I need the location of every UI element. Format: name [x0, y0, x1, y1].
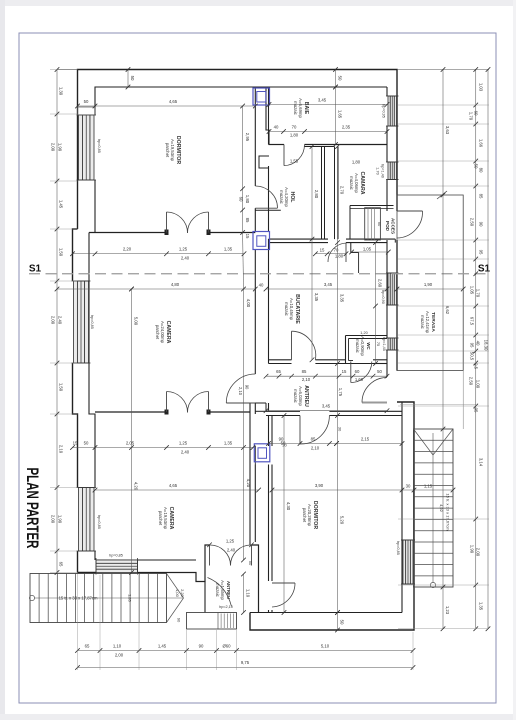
svg-text:3,35: 3,35	[340, 294, 345, 303]
bottom extension lines	[77, 574, 79, 670]
acces pod zone top wall	[350, 205, 394, 207]
window left dormitor1	[79, 115, 95, 180]
svg-text:2,00: 2,00	[51, 515, 56, 524]
svg-text:1,70: 1,70	[376, 167, 380, 174]
window right camara	[388, 162, 397, 180]
top extension line y=69.5 to right dims	[397, 69, 489, 71]
svg-text:2,10: 2,10	[238, 387, 243, 396]
svg-text:65: 65	[276, 369, 281, 374]
wall dormitor1 bottom (y=232.5)	[89, 232, 167, 234]
svg-text:1,80: 1,80	[335, 254, 344, 259]
svg-text:hp=0,85: hp=0,85	[97, 515, 101, 529]
bucatarie/antreu divider (y=361)	[269, 359, 292, 361]
svg-text:15 tr. x 33 x 17,87cm: 15 tr. x 33 x 17,87cm	[59, 596, 98, 601]
svg-text:80: 80	[479, 168, 484, 173]
svg-text:18,30: 18,30	[484, 340, 489, 351]
svg-text:85: 85	[245, 218, 250, 223]
svg-text:2,50: 2,50	[468, 377, 473, 386]
svg-text:3,35: 3,35	[314, 293, 319, 302]
svg-text:4,20: 4,20	[246, 479, 251, 488]
svg-text:1,80: 1,80	[290, 133, 299, 138]
svg-text:30: 30	[338, 427, 343, 432]
svg-text:2,95: 2,95	[245, 133, 250, 142]
camera19/dormitor2 mid dim	[95, 489, 259, 491]
door camera24-antreu6	[226, 402, 255, 404]
dormitor2 door dim line	[269, 443, 337, 445]
svg-text:3,45: 3,45	[318, 98, 327, 103]
svg-text:1,20: 1,20	[360, 331, 367, 335]
svg-text:3,14: 3,14	[479, 458, 484, 467]
svg-text:1,00: 1,00	[475, 380, 480, 389]
svg-text:2,00: 2,00	[115, 653, 124, 658]
svg-text:3,63: 3,63	[445, 126, 450, 135]
svg-text:90: 90	[377, 222, 382, 227]
wall below hol door	[255, 209, 280, 211]
double door dormitor1 south	[166, 212, 168, 233]
svg-text:2,20: 2,20	[123, 247, 132, 252]
hol small dim	[352, 251, 389, 253]
antreu/dormitor2 divider (y=413)	[266, 410, 300, 412]
svg-text:65: 65	[59, 562, 64, 567]
spine wall between left rooms and hall	[254, 87, 256, 186]
window left camera19	[79, 488, 95, 552]
terrace edge extension to stair	[462, 371, 464, 430]
svg-text:1,00: 1,00	[175, 589, 180, 598]
svg-text:1,45: 1,45	[59, 200, 64, 209]
baie dimension line	[269, 131, 387, 133]
svg-text:hp=0,85: hp=0,85	[97, 139, 101, 153]
svg-text:2,35: 2,35	[342, 125, 351, 130]
svg-text:50: 50	[340, 620, 345, 625]
wall baie bottom / hol top	[269, 144, 285, 146]
svg-text:1,35: 1,35	[224, 247, 233, 252]
svg-text:2,20: 2,20	[180, 589, 185, 598]
svg-text:A=4,20mp: A=4,20mp	[284, 187, 289, 207]
svg-text:2,00: 2,00	[475, 548, 480, 557]
svg-text:60: 60	[355, 369, 360, 374]
svg-text:S1: S1	[478, 264, 491, 275]
svg-text:0,5: 0,5	[473, 363, 478, 370]
svg-text:1,80: 1,80	[352, 160, 361, 165]
svg-text:30: 30	[406, 484, 411, 489]
hol/bucatarie vertical dims	[311, 147, 313, 360]
svg-text:hp=1,40: hp=1,40	[381, 164, 385, 178]
svg-text:2,40: 2,40	[181, 256, 190, 261]
svg-text:3,45: 3,45	[322, 404, 331, 409]
svg-text:2,10: 2,10	[59, 445, 64, 454]
window right dormitor2	[403, 540, 413, 584]
svg-text:Ø60: Ø60	[222, 644, 231, 649]
exterior stair east (treads)	[414, 429, 454, 587]
camara shaft walls	[321, 147, 323, 240]
dormitor1 interior vertical dims	[242, 233, 245, 290]
svg-text:2,05: 2,05	[126, 441, 135, 446]
svg-text:15: 15	[73, 441, 78, 446]
exterior wall - inner faces top/left	[95, 87, 387, 115]
interior vertical dim x=131	[131, 289, 133, 573]
svg-text:2,60: 2,60	[378, 279, 383, 288]
svg-text:1,23: 1,23	[445, 606, 450, 615]
wall baie left	[266, 87, 269, 145]
door bucatarie-antreu	[291, 331, 293, 360]
top dimension line inner	[78, 105, 256, 107]
svg-text:A=6,03mp: A=6,03mp	[298, 386, 303, 406]
left dimension chain	[56, 70, 58, 573]
svg-text:85: 85	[302, 369, 307, 374]
svg-text:15 tr. x 33 x 17,67cm: 15 tr. x 33 x 17,67cm	[446, 493, 451, 531]
svg-text:A=0,90mp: A=0,90mp	[360, 336, 365, 356]
svg-text:15: 15	[342, 369, 347, 374]
wc walls	[346, 335, 388, 337]
mid horizontal dim at s1	[57, 288, 255, 290]
svg-text:40: 40	[259, 283, 264, 288]
svg-text:1,75: 1,75	[338, 388, 343, 397]
svg-text:2,00: 2,00	[51, 316, 56, 325]
top wall thickness dim	[335, 70, 337, 88]
baie niche walls	[259, 156, 269, 168]
camera 19 bottom wall with jog	[78, 572, 97, 574]
svg-text:2,10: 2,10	[302, 377, 311, 382]
svg-text:1,50: 1,50	[59, 248, 64, 257]
terrace width dim	[397, 288, 463, 290]
antreu6 area dim	[266, 410, 387, 412]
svg-text:hp=1,45: hp=1,45	[382, 337, 386, 351]
wall camera right face	[249, 414, 251, 542]
svg-text:05: 05	[473, 408, 478, 413]
svg-text:A=6,69mp: A=6,69mp	[298, 98, 303, 118]
svg-text:1,25: 1,25	[226, 539, 235, 544]
svg-text:hp=0,85: hp=0,85	[109, 554, 123, 558]
svg-text:50: 50	[248, 561, 253, 566]
double door camera24 south	[166, 392, 168, 413]
double door camera19 south	[209, 545, 211, 566]
svg-text:ANTREU: ANTREU	[226, 581, 231, 599]
svg-text:A=10,45mp: A=10,45mp	[289, 298, 294, 321]
svg-text:5,10: 5,10	[321, 644, 330, 649]
svg-text:2,70: 2,70	[340, 186, 345, 195]
svg-text:hp=0,85: hp=0,85	[90, 315, 94, 329]
door baie	[283, 145, 285, 166]
svg-text:hp=0,90: hp=0,90	[381, 290, 385, 304]
svg-text:5,00: 5,00	[134, 317, 139, 326]
wall antreu left connector	[255, 402, 266, 404]
door antreu165 entry	[208, 578, 232, 607]
svg-text:4,00: 4,00	[246, 299, 251, 308]
svg-text:90: 90	[479, 222, 484, 227]
svg-text:1,85: 1,85	[128, 594, 133, 603]
svg-text:90: 90	[177, 618, 182, 623]
svg-text:1,90: 1,90	[58, 143, 63, 152]
svg-text:1,35: 1,35	[479, 602, 484, 611]
exterior wall outline - outer face	[78, 70, 398, 230]
svg-text:1,65: 1,65	[338, 110, 343, 119]
window bottom camera19	[96, 560, 138, 573]
svg-text:1,50: 1,50	[59, 383, 64, 392]
svg-text:mozaic: mozaic	[293, 101, 298, 115]
svg-text:3,90: 3,90	[315, 483, 324, 488]
svg-text:1,35: 1,35	[224, 441, 233, 446]
bottom exterior wall	[250, 612, 402, 614]
svg-text:70: 70	[292, 125, 297, 130]
svg-text:6,62: 6,62	[445, 306, 450, 315]
door acces pod - terasa	[397, 210, 423, 212]
acces pod door small dims	[315, 253, 346, 255]
svg-text:1,70: 1,70	[475, 289, 480, 298]
svg-text:mozaic: mozaic	[293, 389, 298, 403]
svg-text:A=20,28mp: A=20,28mp	[307, 504, 312, 527]
antreu porch with steps	[187, 613, 237, 630]
window left camera24	[74, 281, 89, 363]
svg-text:1,10: 1,10	[246, 589, 251, 598]
bucatarie corner jog near hol door	[351, 243, 359, 253]
door hol-dormitor1	[255, 186, 277, 208]
top wall thickness dim left	[127, 70, 129, 88]
svg-text:hp=0,95: hp=0,95	[382, 104, 386, 118]
svg-text:POD: POD	[385, 221, 390, 232]
antreu6 top dim line	[266, 375, 387, 377]
bucatarie right vertical dim	[375, 243, 377, 364]
svg-text:hp=0,85: hp=0,85	[396, 541, 400, 555]
svg-text:95: 95	[469, 343, 474, 348]
svg-text:75: 75	[376, 342, 380, 346]
svg-text:mozaic: mozaic	[420, 315, 425, 329]
svg-text:1,60: 1,60	[355, 377, 364, 382]
door antreu-dormitor2	[299, 416, 301, 445]
svg-text:1,25: 1,25	[179, 441, 188, 446]
svg-text:4,20: 4,20	[134, 482, 139, 491]
dormitor1 door dim line	[73, 253, 245, 255]
svg-text:1,45: 1,45	[158, 644, 167, 649]
svg-text:WC: WC	[366, 342, 371, 350]
svg-text:1,05: 1,05	[363, 247, 372, 252]
window right wc	[388, 338, 397, 350]
svg-text:1,80: 1,80	[245, 195, 250, 204]
svg-text:mozaic: mozaic	[215, 583, 220, 597]
svg-text:parchet: parchet	[302, 508, 307, 523]
svg-text:85: 85	[479, 194, 484, 199]
svg-text:mozaic: mozaic	[355, 339, 360, 353]
svg-text:50: 50	[338, 76, 343, 81]
svg-text:90: 90	[245, 385, 250, 390]
svg-text:70: 70	[334, 248, 339, 253]
svg-text:S1: S1	[29, 264, 42, 275]
svg-text:mozaic: mozaic	[279, 190, 284, 204]
door dormitor2-antreu165	[272, 582, 295, 584]
svg-text:A=12,41mp: A=12,41mp	[425, 311, 430, 334]
svg-text:2,50: 2,50	[469, 218, 474, 227]
svg-text:50: 50	[377, 369, 382, 374]
svg-text:PLAN PARTER: PLAN PARTER	[23, 468, 41, 549]
svg-text:2,40: 2,40	[58, 316, 63, 325]
camera24 door dim line	[73, 447, 254, 449]
svg-text:A=4,06mp: A=4,06mp	[354, 173, 359, 193]
exterior stair west (15 treads)	[30, 574, 167, 623]
svg-text:5,20: 5,20	[340, 516, 345, 525]
svg-text:15: 15	[245, 234, 250, 239]
acces pod ladder	[365, 208, 381, 240]
svg-text:3,45: 3,45	[324, 282, 333, 287]
svg-text:1,66: 1,66	[479, 139, 484, 148]
svg-text:2,15: 2,15	[361, 437, 370, 442]
svg-text:85: 85	[311, 437, 316, 442]
right dimension chain inner	[475, 70, 477, 629]
svg-text:15: 15	[320, 248, 325, 253]
section line S1	[29, 273, 489, 275]
chimney flue 1	[253, 88, 270, 105]
svg-text:30: 30	[282, 443, 287, 448]
svg-text:67,5: 67,5	[469, 317, 474, 326]
svg-text:50: 50	[130, 76, 135, 81]
svg-text:1,70: 1,70	[468, 112, 473, 121]
svg-text:2,00: 2,00	[51, 143, 56, 152]
terrace outline	[397, 195, 463, 371]
svg-text:1,15: 1,15	[424, 484, 433, 489]
right exterior wall inner face	[386, 87, 388, 96]
bottom dim line total	[78, 667, 414, 669]
stair east direction line	[432, 433, 434, 583]
door antreu6 exterior east	[362, 402, 387, 404]
right extension lines	[398, 104, 489, 106]
interior vertical dim x=243 lower	[243, 289, 245, 560]
svg-text:parchet: parchet	[155, 325, 160, 340]
left extension lines	[50, 69, 78, 71]
svg-text:4,65: 4,65	[169, 483, 178, 488]
svg-text:1,90: 1,90	[424, 282, 433, 287]
dormitor2 interior dims	[283, 416, 285, 613]
svg-text:A=24,00mp: A=24,00mp	[160, 321, 165, 344]
svg-text:4,65: 4,65	[169, 99, 178, 104]
svg-text:50: 50	[84, 441, 89, 446]
svg-text:2,40: 2,40	[181, 450, 190, 455]
wall camera24/camera19 divider (y=412)	[95, 411, 167, 413]
svg-text:hp=2,10: hp=2,10	[219, 605, 233, 609]
svg-text:1,10: 1,10	[113, 644, 122, 649]
svg-text:50: 50	[473, 164, 478, 169]
svg-text:95: 95	[479, 250, 484, 255]
svg-text:9,75: 9,75	[241, 660, 250, 665]
svg-text:90: 90	[279, 437, 284, 442]
svg-text:mozaic: mozaic	[349, 176, 354, 190]
svg-text:40: 40	[274, 125, 279, 130]
svg-text:1,05: 1,05	[469, 286, 474, 295]
svg-text:4,80: 4,80	[171, 282, 180, 287]
svg-text:A=19,53mp: A=19,53mp	[163, 507, 168, 530]
svg-text:4,30: 4,30	[286, 502, 291, 511]
svg-text:ACCES: ACCES	[391, 218, 396, 234]
svg-text:90: 90	[199, 644, 204, 649]
bottom dim line 1	[78, 650, 414, 652]
camera19 door dim labels	[207, 543, 212, 548]
svg-text:parchet: parchet	[165, 143, 170, 158]
svg-text:mozaic: mozaic	[284, 302, 289, 316]
page edge shading	[0, 0, 516, 6]
wall camera24 top door jambs	[165, 230, 169, 236]
svg-text:1,03: 1,03	[479, 83, 484, 92]
right dimension chain outer total	[487, 70, 489, 629]
svg-text:1,55: 1,55	[290, 159, 299, 164]
stair west direction line and start circle	[34, 597, 184, 599]
svg-text:50: 50	[84, 99, 89, 104]
door hol-bucatarie	[328, 243, 347, 262]
svg-text:50,5: 50,5	[469, 352, 474, 361]
svg-text:2,40: 2,40	[227, 548, 236, 553]
svg-text:2,80: 2,80	[314, 190, 319, 199]
chimney flue 3	[254, 444, 269, 462]
svg-text:65: 65	[85, 644, 90, 649]
door wc	[350, 362, 352, 383]
window right baie	[388, 96, 397, 126]
hol/bucatarie divider wall (y=240)	[269, 238, 329, 240]
svg-text:1,30: 1,30	[59, 87, 64, 96]
terrace vertical dim x=443	[442, 70, 444, 629]
svg-text:2,10: 2,10	[311, 446, 320, 451]
window right bucatarie	[388, 273, 397, 305]
svg-text:1,90: 1,90	[58, 515, 63, 524]
svg-text:1,25: 1,25	[179, 247, 188, 252]
svg-text:1,90: 1,90	[469, 545, 474, 554]
svg-text:parchet: parchet	[158, 511, 163, 526]
svg-text:40: 40	[475, 341, 480, 346]
svg-text:A=1,65mp: A=1,65mp	[220, 580, 225, 600]
svg-text:60: 60	[239, 197, 244, 202]
chimney flue 2	[253, 232, 270, 250]
svg-text:A=19,53mp: A=19,53mp	[170, 139, 175, 162]
